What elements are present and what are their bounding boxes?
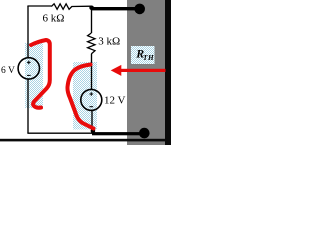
bottom border line <box>0 139 171 142</box>
junction dot top <box>89 6 94 11</box>
voltage source V1 6V circle <box>18 58 39 79</box>
resistor R1 6k zigzag <box>51 4 91 10</box>
svg-text:6 V: 6 V <box>1 66 15 76</box>
terminal node b dot <box>139 128 150 139</box>
thick lead to top terminal <box>92 7 141 10</box>
terminal node a dot <box>134 4 145 15</box>
wire top horizontal <box>27 5 51 7</box>
voltage source V2 12V circle <box>81 89 102 110</box>
R_TH hatched label box <box>131 46 155 64</box>
minus sign V1 <box>27 74 31 76</box>
plus sign V1 <box>27 61 31 65</box>
wire right vertical upper <box>91 7 93 33</box>
svg-text:12 V: 12 V <box>104 94 126 106</box>
junction dot bottom <box>91 129 96 134</box>
svg-text:6 kΩ: 6 kΩ <box>43 13 65 25</box>
minus sign V2 <box>90 106 94 108</box>
wire bottom horizontal <box>27 132 93 134</box>
wire right vertical middle <box>91 54 93 90</box>
black right bar <box>165 0 171 145</box>
gray terminal region <box>127 0 165 145</box>
red short stroke over 12V source <box>67 65 93 129</box>
red arrow RTH shaft <box>120 69 166 72</box>
wire right vertical lower <box>91 110 93 133</box>
highlight band over 6V source <box>25 43 43 108</box>
svg-text:3 kΩ: 3 kΩ <box>98 35 120 47</box>
wire left vertical <box>27 6 29 58</box>
wire left vertical lower <box>27 79 29 133</box>
plus sign V2 <box>90 92 94 96</box>
red short stroke over 6V source <box>31 40 50 108</box>
red arrow RTH head <box>111 65 122 76</box>
highlight band over 12V source <box>73 62 97 130</box>
resistor R2 3k zigzag <box>88 33 95 54</box>
thick lead to bottom terminal <box>92 132 145 135</box>
